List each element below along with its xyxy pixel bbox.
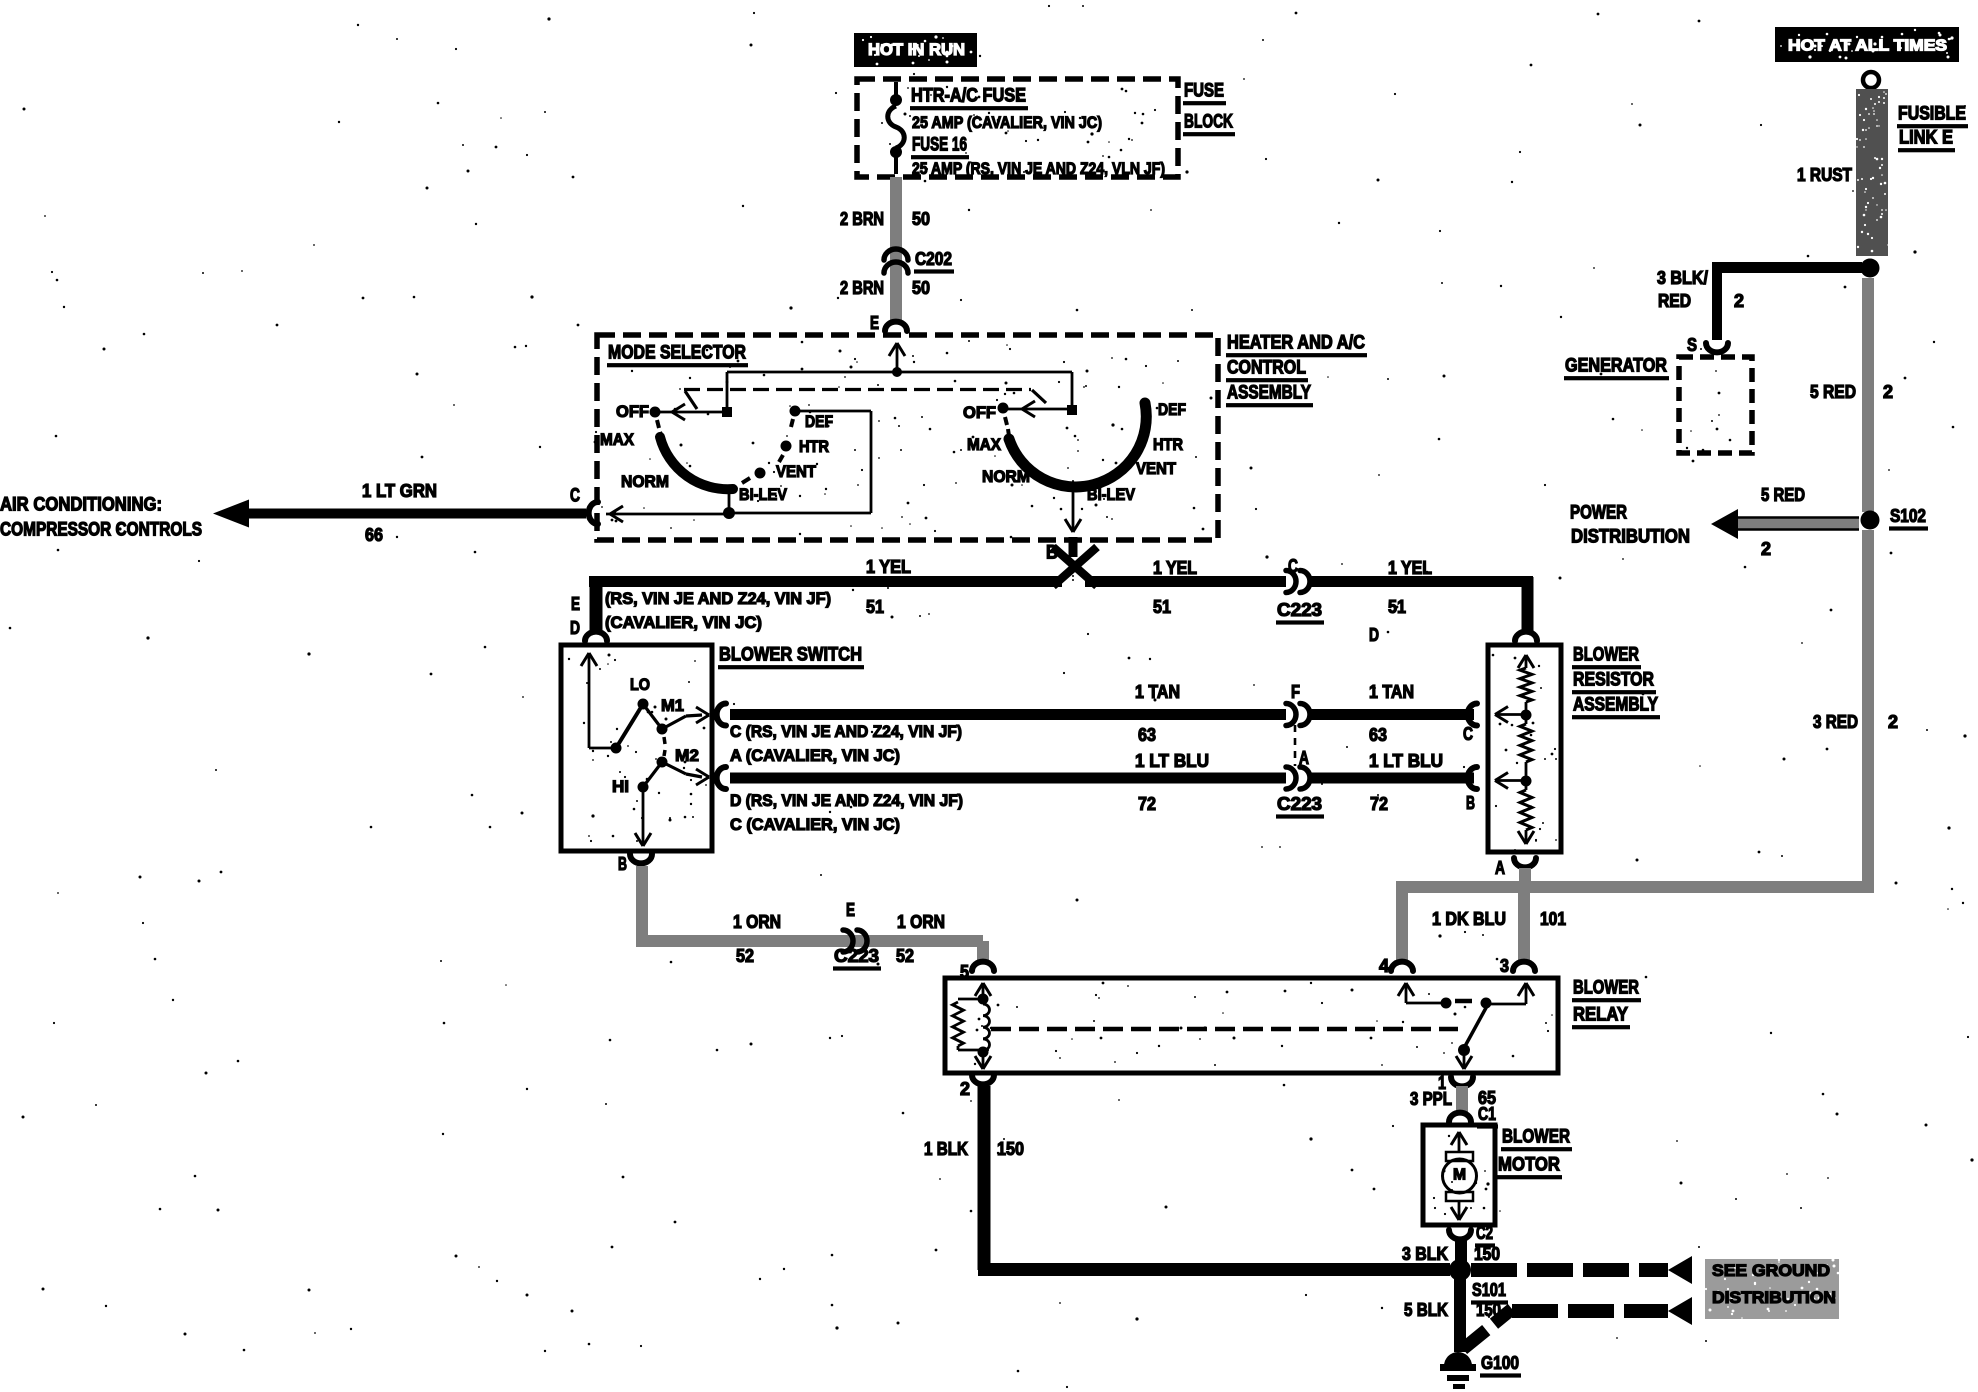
svg-text:2: 2 xyxy=(1761,539,1771,559)
svg-text:LO: LO xyxy=(630,675,650,694)
svg-text:M: M xyxy=(1453,1167,1466,1184)
svg-text:OFF: OFF xyxy=(616,402,649,421)
svg-text:1 ORN: 1 ORN xyxy=(897,912,945,932)
svg-text:NORM: NORM xyxy=(621,472,669,491)
svg-text:C1: C1 xyxy=(1478,1104,1496,1124)
svg-text:A (CAVALIER, VIN JC): A (CAVALIER, VIN JC) xyxy=(730,746,900,765)
svg-text:C (RS, VIN JE AND Z24, VIN JF): C (RS, VIN JE AND Z24, VIN JF) xyxy=(730,722,962,741)
svg-text:1 LT BLU: 1 LT BLU xyxy=(1369,751,1443,771)
svg-text:RESISTOR: RESISTOR xyxy=(1573,670,1654,691)
svg-text:25 AMP (CAVALIER, VIN JC): 25 AMP (CAVALIER, VIN JC) xyxy=(912,113,1102,132)
svg-text:150: 150 xyxy=(997,1139,1024,1159)
svg-text:D: D xyxy=(570,618,580,638)
svg-text:2: 2 xyxy=(1888,712,1898,732)
svg-text:1 RUST: 1 RUST xyxy=(1797,165,1852,185)
svg-text:101: 101 xyxy=(1540,909,1566,929)
svg-text:HTR: HTR xyxy=(1153,435,1183,454)
svg-text:72: 72 xyxy=(1370,794,1388,814)
svg-text:RELAY: RELAY xyxy=(1573,1005,1628,1026)
svg-text:BLOWER: BLOWER xyxy=(1502,1127,1570,1148)
svg-text:1 YEL: 1 YEL xyxy=(866,557,911,577)
svg-text:1 TAN: 1 TAN xyxy=(1369,682,1414,702)
svg-text:2 BRN: 2 BRN xyxy=(840,209,884,229)
svg-text:1 ORN: 1 ORN xyxy=(733,912,781,932)
svg-text:C2: C2 xyxy=(1476,1223,1493,1243)
svg-text:ASSEMBLY: ASSEMBLY xyxy=(1227,383,1311,404)
svg-text:5 RED: 5 RED xyxy=(1810,382,1856,402)
svg-text:5 BLK: 5 BLK xyxy=(1404,1300,1448,1320)
svg-text:5 RED: 5 RED xyxy=(1761,485,1805,505)
svg-text:50: 50 xyxy=(912,209,930,229)
svg-text:51: 51 xyxy=(866,597,884,617)
svg-text:4: 4 xyxy=(1379,956,1389,976)
svg-text:HTR-A/C FUSE: HTR-A/C FUSE xyxy=(911,86,1026,107)
svg-text:3 RED: 3 RED xyxy=(1813,712,1858,732)
svg-text:C223: C223 xyxy=(1277,600,1322,620)
svg-text:OFF: OFF xyxy=(963,403,996,422)
svg-text:S: S xyxy=(1687,335,1697,355)
svg-text:ASSEMBLY: ASSEMBLY xyxy=(1573,695,1658,716)
svg-text:FUSE: FUSE xyxy=(1184,81,1224,102)
svg-text:G100: G100 xyxy=(1481,1353,1519,1373)
svg-text:B: B xyxy=(1466,793,1475,813)
svg-text:(CAVALIER, VIN JC): (CAVALIER, VIN JC) xyxy=(605,613,762,632)
svg-text:POWER: POWER xyxy=(1570,503,1627,524)
svg-text:GENERATOR: GENERATOR xyxy=(1565,356,1667,377)
svg-text:(RS, VIN JE AND Z24, VIN JF): (RS, VIN JE AND Z24, VIN JF) xyxy=(605,589,831,608)
svg-text:S102: S102 xyxy=(1890,506,1926,526)
svg-text:51: 51 xyxy=(1153,597,1171,617)
svg-text:A: A xyxy=(1495,858,1505,878)
svg-text:C: C xyxy=(1463,724,1473,744)
svg-text:3 PPL: 3 PPL xyxy=(1410,1089,1452,1109)
svg-text:C223: C223 xyxy=(834,946,879,966)
svg-text:63: 63 xyxy=(1138,725,1156,745)
svg-text:FUSE 16: FUSE 16 xyxy=(912,135,967,156)
svg-text:M1: M1 xyxy=(661,696,684,715)
svg-text:52: 52 xyxy=(896,946,914,966)
svg-text:LINK E: LINK E xyxy=(1899,128,1953,149)
svg-text:A: A xyxy=(1299,748,1309,768)
svg-text:2: 2 xyxy=(1734,291,1744,311)
svg-text:1 LT BLU: 1 LT BLU xyxy=(1135,751,1209,771)
svg-text:NORM: NORM xyxy=(982,467,1030,486)
svg-text:HI: HI xyxy=(612,777,629,796)
svg-text:D: D xyxy=(1369,625,1379,645)
svg-text:C223: C223 xyxy=(1277,794,1322,814)
svg-text:MAX: MAX xyxy=(967,435,1002,454)
svg-text:MODE SELECTOR: MODE SELECTOR xyxy=(608,343,746,364)
svg-text:BLOWER SWITCH: BLOWER SWITCH xyxy=(719,645,862,666)
svg-text:BLOWER: BLOWER xyxy=(1573,978,1639,999)
svg-text:3 BLK/: 3 BLK/ xyxy=(1657,268,1708,288)
svg-text:S101: S101 xyxy=(1472,1280,1506,1300)
svg-text:HTR: HTR xyxy=(799,437,829,456)
svg-text:COMPRESSOR CONTROLS: COMPRESSOR CONTROLS xyxy=(0,520,202,541)
svg-text:BLOWER: BLOWER xyxy=(1573,645,1639,666)
svg-text:RED: RED xyxy=(1658,291,1691,311)
svg-text:1 YEL: 1 YEL xyxy=(1388,558,1432,578)
svg-text:DEF: DEF xyxy=(805,412,833,431)
svg-text:HEATER AND A/C: HEATER AND A/C xyxy=(1227,333,1365,354)
svg-text:VENT: VENT xyxy=(1136,459,1177,478)
svg-text:50: 50 xyxy=(912,278,930,298)
svg-text:150: 150 xyxy=(1474,1244,1500,1264)
svg-text:C (CAVALIER, VIN JC): C (CAVALIER, VIN JC) xyxy=(730,815,900,834)
svg-text:3 BLK: 3 BLK xyxy=(1402,1244,1448,1264)
svg-text:52: 52 xyxy=(736,946,754,966)
svg-text:DISTRIBUTION: DISTRIBUTION xyxy=(1571,527,1690,548)
svg-text:1 YEL: 1 YEL xyxy=(1153,558,1197,578)
svg-text:66: 66 xyxy=(365,525,383,545)
svg-text:E: E xyxy=(571,594,580,614)
svg-text:B: B xyxy=(618,854,627,874)
svg-text:C202: C202 xyxy=(915,249,952,269)
svg-text:2: 2 xyxy=(960,1079,970,1099)
svg-text:HOT IN RUN: HOT IN RUN xyxy=(868,40,965,59)
svg-text:SEE GROUND: SEE GROUND xyxy=(1712,1261,1830,1280)
svg-text:E: E xyxy=(870,313,879,333)
svg-text:VENT: VENT xyxy=(776,462,817,481)
svg-text:MOTOR: MOTOR xyxy=(1498,1155,1560,1176)
svg-text:BI-LEV: BI-LEV xyxy=(739,485,788,504)
svg-text:DEF: DEF xyxy=(1158,400,1186,419)
svg-text:1 LT GRN: 1 LT GRN xyxy=(362,481,437,501)
svg-text:2 BRN: 2 BRN xyxy=(840,278,884,298)
svg-text:CONTROL: CONTROL xyxy=(1227,358,1306,379)
svg-text:F: F xyxy=(1291,682,1300,702)
svg-text:3: 3 xyxy=(1500,956,1509,976)
svg-text:1 DK BLU: 1 DK BLU xyxy=(1432,909,1506,929)
svg-text:B: B xyxy=(1046,543,1058,564)
svg-text:2: 2 xyxy=(1883,382,1893,402)
svg-text:M2: M2 xyxy=(675,746,699,765)
svg-text:51: 51 xyxy=(1388,597,1406,617)
svg-text:DISTRIBUTION: DISTRIBUTION xyxy=(1712,1288,1836,1307)
svg-text:C: C xyxy=(570,486,580,507)
svg-text:1 BLK: 1 BLK xyxy=(924,1139,968,1159)
svg-text:BLOCK: BLOCK xyxy=(1184,112,1233,133)
svg-text:72: 72 xyxy=(1138,794,1156,814)
svg-text:HOT AT ALL TIMES: HOT AT ALL TIMES xyxy=(1788,38,1947,55)
svg-text:MAX: MAX xyxy=(600,430,635,449)
svg-text:E: E xyxy=(846,900,855,920)
svg-text:AIR CONDITIONING:: AIR CONDITIONING: xyxy=(0,495,162,516)
svg-text:25 AMP (RS, VIN JE AND Z24, VL: 25 AMP (RS, VIN JE AND Z24, VLN JF) xyxy=(912,159,1165,178)
svg-text:1 TAN: 1 TAN xyxy=(1135,682,1180,702)
svg-text:D (RS, VIN JE AND Z24, VIN JF): D (RS, VIN JE AND Z24, VIN JF) xyxy=(730,791,963,810)
svg-text:C: C xyxy=(1288,557,1298,578)
svg-text:BI-LEV: BI-LEV xyxy=(1087,485,1136,504)
svg-text:FUSIBLE: FUSIBLE xyxy=(1898,104,1966,125)
svg-text:63: 63 xyxy=(1369,725,1387,745)
